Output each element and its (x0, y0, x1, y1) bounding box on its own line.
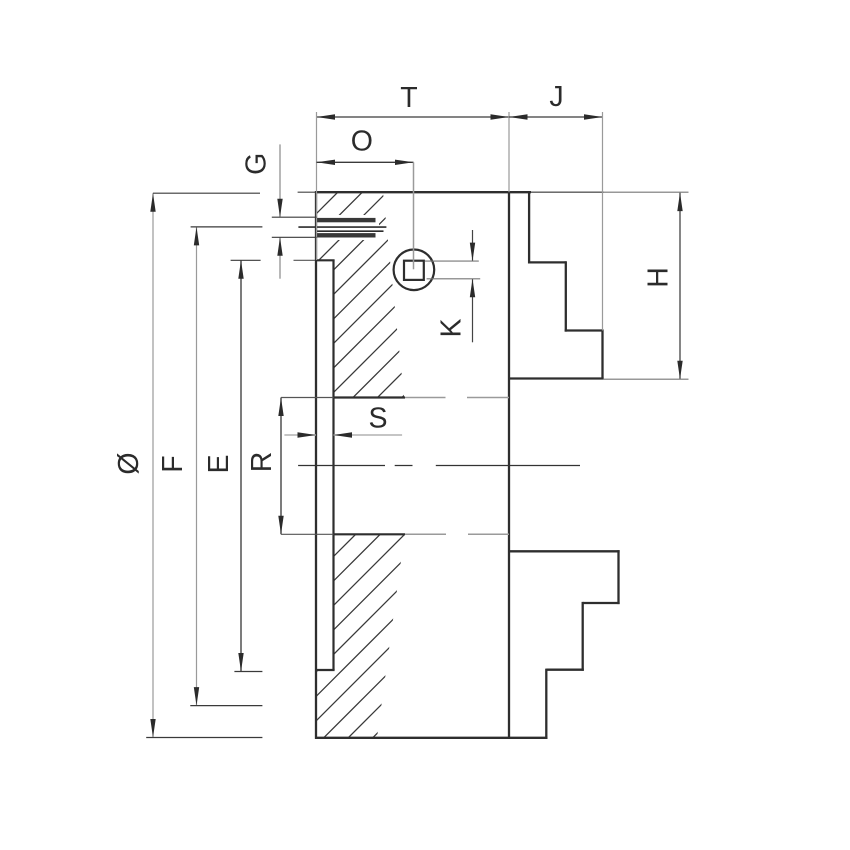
extension line R bottom (281, 533, 334, 535)
dimension G line lower tail (279, 237, 281, 278)
dimension E line (240, 260, 242, 671)
extension line diameter top (153, 192, 260, 194)
extension line J right (602, 112, 604, 331)
extension line H bottom (604, 378, 689, 380)
chuck body bottom edge (315, 737, 548, 739)
chuck body front face (left edge) (315, 191, 317, 739)
svg-text:O: O (351, 126, 373, 158)
extension line O right (to socket center) (413, 162, 415, 269)
extension line E top left (231, 259, 261, 261)
extension line K top (425, 260, 479, 262)
dimension T line (317, 116, 510, 118)
mounting thread hole upper wall (317, 218, 376, 222)
dimension R line (280, 398, 282, 535)
top jaw step 1 top (528, 261, 566, 263)
extension line F bottom (190, 705, 262, 707)
dimension O line (317, 161, 414, 163)
svg-text:R: R (246, 452, 278, 473)
thread crest line lower (317, 230, 384, 232)
recess top edge (294, 259, 317, 261)
dimension S line left (284, 434, 316, 436)
operating key socket circle (394, 249, 435, 290)
extension line T left (316, 112, 318, 260)
svg-text:S: S (368, 403, 387, 435)
hatching bottom block (section lines) (130, 500, 611, 760)
dimension K line lower tail (472, 279, 474, 343)
bottom jaw step 2 face (545, 669, 547, 738)
top jaw outer face (601, 329, 603, 378)
dimension diameter line (152, 193, 154, 737)
thread crest line upper (298, 226, 386, 228)
center bore top edge (334, 396, 406, 398)
top jaw bottom edge (509, 377, 604, 379)
dimension G line upper tail (279, 144, 281, 217)
svg-text:Ø: Ø (113, 452, 145, 474)
dimension F line (196, 227, 198, 706)
extension line F top (191, 226, 263, 228)
white mask over thread region (303, 215, 379, 240)
bottom jaw outer face (617, 550, 619, 604)
extension line H top (604, 191, 689, 193)
center bore bottom edge (334, 533, 406, 535)
dimension S line right (334, 434, 403, 436)
extension line R top (281, 397, 334, 399)
top jaw step 1 face (528, 192, 530, 263)
dimension H line (679, 193, 681, 380)
chuck body back face (right edge) (508, 191, 510, 739)
extension line E bottom left (234, 671, 262, 673)
bottom jaw top edge (509, 550, 620, 552)
extension line K bottom (427, 278, 481, 280)
svg-text:J: J (549, 81, 563, 113)
mounting thread hole lower wall (317, 233, 376, 237)
dimension J line (509, 116, 603, 118)
svg-text:K: K (436, 318, 468, 337)
svg-text:G: G (241, 153, 273, 175)
svg-text:T: T (400, 82, 417, 114)
extension line G bottom (272, 236, 317, 238)
hatching top block (section lines) (110, 150, 650, 420)
extension line G top (272, 216, 317, 218)
extension line diameter bottom (146, 737, 262, 739)
svg-text:E: E (203, 454, 235, 473)
horizontal centerline (dash-dot axis) (298, 465, 385, 467)
extension line T/J shared (508, 112, 510, 192)
top jaw step 2 face (565, 261, 567, 331)
bottom jaw step 1 face (582, 602, 584, 671)
svg-text:H: H (643, 267, 675, 288)
bottom jaw step 1 edge (583, 602, 620, 604)
chuck body top edge (298, 191, 317, 193)
operating key square (404, 261, 424, 280)
top jaw step 2 top (565, 329, 603, 331)
recess bottom edge (315, 669, 335, 671)
mounting recess inner line (332, 260, 334, 670)
bottom jaw step 2 edge (546, 669, 584, 671)
dimension K line upper tail (472, 230, 474, 261)
svg-text:F: F (157, 455, 189, 472)
